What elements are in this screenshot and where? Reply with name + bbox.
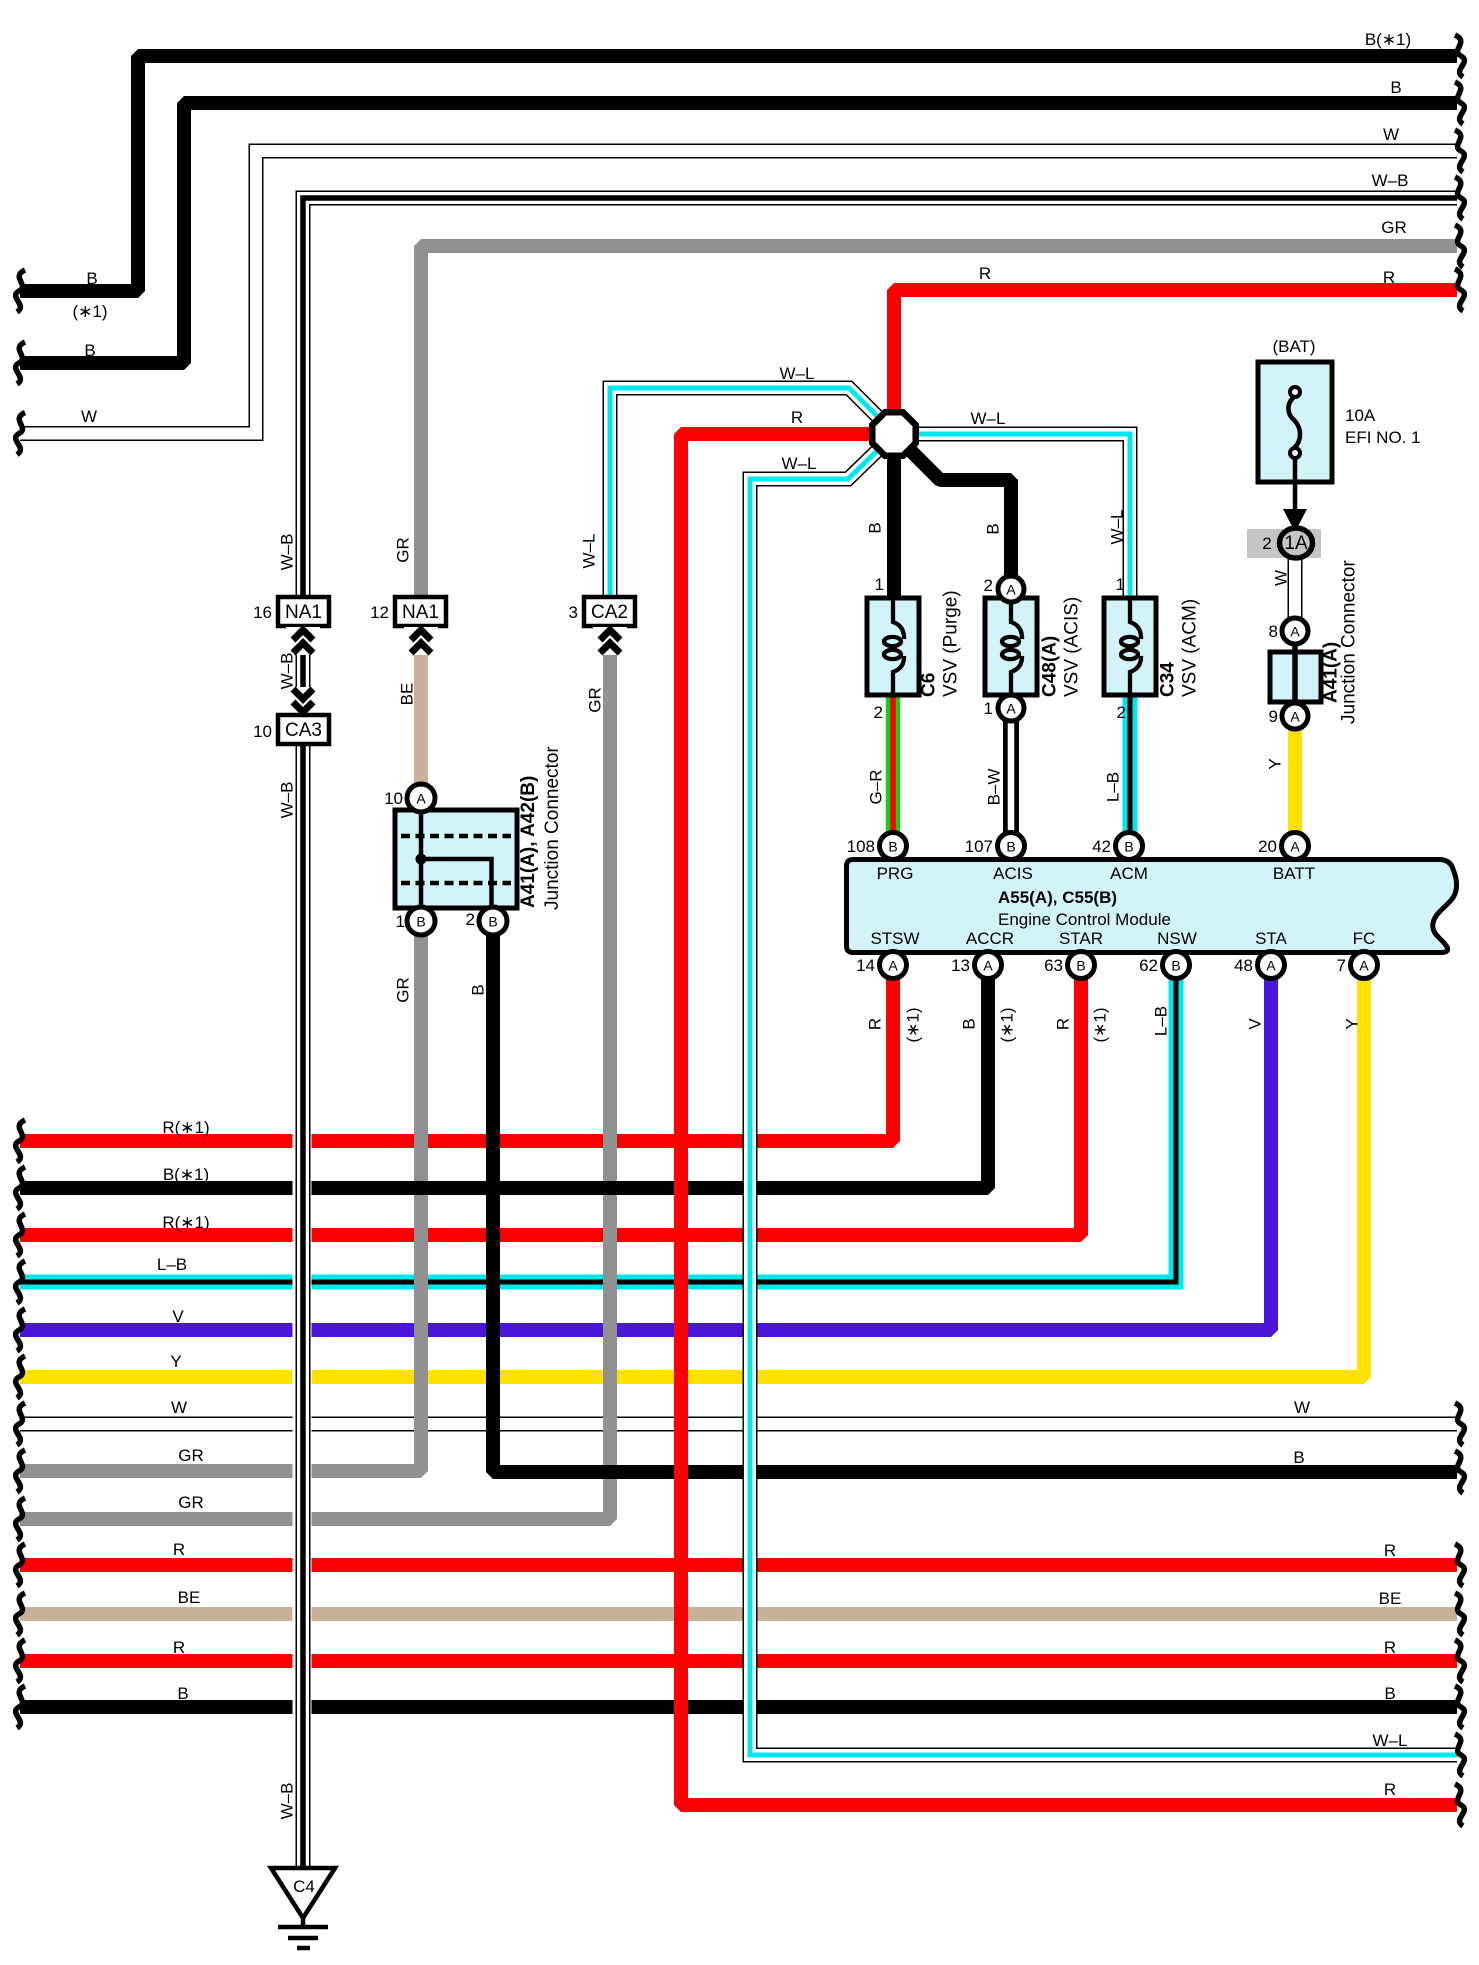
svg-text:48: 48 [1234,956,1253,975]
svg-text:R: R [979,264,991,283]
svg-text:(∗1): (∗1) [72,302,107,321]
wire B top [20,103,1457,363]
wire end squiggles left [16,270,25,1728]
svg-text:10: 10 [253,722,272,741]
svg-text:R: R [1384,1541,1396,1560]
ECM pin 14 A [880,952,907,979]
svg-text:STAR: STAR [1059,929,1103,948]
wire R from node left, down and to bottom right edge [681,434,1457,1805]
svg-text:W–L: W–L [1373,1731,1408,1750]
svg-text:GR: GR [178,1446,204,1465]
ECM pin 13 A [975,952,1002,979]
ECM pin 42 B [1116,833,1143,860]
wire R top to node [894,290,1457,412]
svg-text:W–B: W–B [278,653,297,690]
svg-text:R: R [1384,1780,1396,1799]
wire W-L lower loop from node to bottom right edge [750,448,1457,1755]
svg-text:62: 62 [1139,956,1158,975]
connector NA1 pin 12 box [395,597,446,626]
connector 2 1A ellipse [1280,528,1313,558]
svg-text:C6: C6 [919,673,940,697]
svg-text:STA: STA [1255,929,1287,948]
svg-text:1A: 1A [1284,533,1308,554]
svg-text:A: A [1290,624,1300,640]
ECM pin 20 A [1282,833,1309,860]
svg-text:A: A [983,958,993,974]
wire B(*1) row to ECM pin 13 [20,978,988,1188]
svg-text:GR: GR [178,1493,204,1512]
ECM pin 7 A [1351,952,1378,979]
svg-text:VSV (ACIS): VSV (ACIS) [1062,597,1083,697]
connector NA1 pin 16 box [278,597,329,626]
ECM pin 108 B [880,833,907,860]
svg-text:EFI NO. 1: EFI NO. 1 [1345,428,1421,447]
ground symbol C4 [271,1868,335,1918]
svg-text:W–B: W–B [278,534,297,571]
svg-text:14: 14 [856,956,875,975]
svg-text:R: R [173,1540,185,1559]
wire B(*1) top [20,56,1457,291]
svg-text:L–B: L–B [1152,1006,1171,1036]
svg-text:B: B [984,523,1003,534]
svg-text:A: A [1266,958,1276,974]
wire GR row left to junction connector pin 1 [20,934,421,1471]
svg-text:12: 12 [370,603,389,622]
ECM pin 63 B [1068,952,1095,979]
wire B row right from junction connector pin 2 [493,934,1457,1472]
junction connector pin 8 A [1282,618,1308,644]
svg-text:1: 1 [1116,575,1125,594]
svg-text:B: B [84,341,95,360]
svg-text:C34: C34 [1158,662,1179,697]
svg-text:1: 1 [984,699,993,718]
svg-text:PRG: PRG [877,864,914,883]
svg-text:1: 1 [875,575,884,594]
svg-text:A: A [416,791,426,807]
svg-text:A: A [1006,701,1016,717]
svg-text:W–L: W–L [780,364,815,383]
fuse output arrow [1283,509,1307,532]
svg-text:A55(A), C55(B): A55(A), C55(B) [998,888,1117,907]
VSV C48 pin 2 circle [998,576,1024,602]
svg-text:W–B: W–B [278,782,297,819]
svg-text:B: B [866,522,885,533]
svg-text:GR: GR [586,687,605,713]
svg-text:R: R [1384,1638,1396,1657]
svg-text:A: A [1006,582,1016,598]
junction connector pin 9 A [1282,703,1308,729]
svg-text:Junction Connector: Junction Connector [1339,560,1360,724]
wire Y row to ECM pin 7 [20,978,1364,1377]
wire G-R from VSV C6 to ECM pin 108 [892,692,894,838]
svg-text:ACM: ACM [1110,864,1148,883]
svg-text:A41(A), A42(B): A41(A), A42(B) [518,776,539,908]
svg-text:L–B: L–B [1104,772,1123,802]
wire W-B halo [293,1128,312,1722]
svg-text:GR: GR [394,977,413,1003]
svg-text:L–B: L–B [157,1255,187,1274]
wire V row to ECM pin 48 [20,978,1271,1330]
svg-text:8: 8 [1269,622,1278,641]
wire W-L upper from node to connector CA2 [610,388,880,601]
svg-text:VSV (ACM): VSV (ACM) [1180,599,1201,697]
svg-text:108: 108 [847,837,875,856]
svg-text:R: R [1383,268,1395,287]
ECM A55(A),C55(B) box [847,860,1457,953]
wire BE row [20,1607,1457,1621]
node octagon junction [872,412,915,455]
svg-text:ACCR: ACCR [966,929,1014,948]
wire L-B from VSV C34 to ECM pin 42 [1129,692,1131,838]
svg-text:R: R [866,1018,885,1030]
svg-text:A: A [888,958,898,974]
VSV C48 pin 1 circle [998,695,1024,721]
wire GR top to connector NA1 12 [421,246,1457,601]
wire L-B row to ECM pin 62 [20,978,1176,1282]
svg-text:B: B [177,1684,188,1703]
svg-text:BE: BE [178,1588,201,1607]
svg-text:W–L: W–L [580,534,599,569]
wire W row [20,1423,1457,1425]
svg-text:R: R [1054,1018,1073,1030]
svg-text:C4: C4 [293,1877,315,1896]
wire W top [20,151,1457,434]
wire B from node down to VSV C6 [887,446,901,601]
svg-text:NA1: NA1 [285,602,322,623]
svg-text:(BAT): (BAT) [1272,337,1315,356]
svg-text:CA2: CA2 [591,602,628,623]
svg-text:B: B [1293,1448,1304,1467]
svg-text:Y: Y [170,1352,181,1371]
wire Y from junction connector pin 9 to ECM pin 20 [1288,728,1302,838]
connector arrows below NA1 12 [404,627,438,655]
svg-text:2: 2 [1262,534,1271,553]
svg-text:W–L: W–L [971,409,1006,428]
junction connector A41(A),A42(B) box [395,810,517,908]
svg-text:9: 9 [1269,707,1278,726]
svg-text:B: B [1006,839,1015,855]
wire BE from connector NA1 12 to junction connector pin 10 [414,640,428,786]
svg-text:B(∗1): B(∗1) [163,1165,209,1184]
svg-text:R: R [791,408,803,427]
connector arrows below CA2 [593,627,627,655]
svg-text:W: W [1272,570,1291,586]
svg-text:(∗1): (∗1) [1091,1007,1110,1042]
VSV C6 box [867,598,919,695]
svg-text:R: R [173,1638,185,1657]
svg-text:CA3: CA3 [285,720,322,741]
VSV C34 box [1104,598,1156,695]
svg-text:(∗1): (∗1) [998,1007,1017,1042]
wire R(*1) row to ECM pin 14 [20,978,893,1141]
svg-text:R(∗1): R(∗1) [162,1213,209,1232]
svg-text:FC: FC [1353,929,1376,948]
wire R row lower [20,1654,1457,1668]
junction connector pin 10 A [407,784,435,812]
svg-text:B: B [488,914,497,930]
svg-text:B: B [86,269,97,288]
wire GR row 2 left to connector CA2 [20,628,610,1519]
svg-text:W: W [171,1398,187,1417]
svg-text:GR: GR [394,537,413,563]
svg-text:42: 42 [1092,837,1111,856]
svg-text:B–W: B–W [985,769,1004,806]
ECM pin 48 A [1258,952,1285,979]
connector CA3 pin 10 box [278,715,329,744]
svg-text:13: 13 [951,956,970,975]
junction connector pin 1 B [407,907,435,935]
wire R row [20,1558,1457,1572]
wire B-W from VSV C48 to ECM pin 107 [1010,718,1012,838]
svg-text:STSW: STSW [870,929,919,948]
VSV C48 box [985,598,1037,695]
svg-text:NA1: NA1 [402,602,439,623]
svg-text:W–B: W–B [278,1783,297,1820]
svg-text:B(∗1): B(∗1) [1365,30,1411,49]
svg-text:BATT: BATT [1273,864,1315,883]
svg-text:1: 1 [396,912,405,931]
svg-text:C48(A): C48(A) [1040,636,1061,697]
svg-text:GR: GR [1381,218,1407,237]
svg-text:NSW: NSW [1157,929,1197,948]
svg-text:BE: BE [1379,1589,1402,1608]
svg-text:B: B [1171,958,1180,974]
svg-text:20: 20 [1258,837,1277,856]
svg-text:B: B [1076,958,1085,974]
svg-text:Y: Y [1266,758,1285,769]
svg-text:BE: BE [398,683,417,706]
connector arrows below NA1 16 [286,627,320,655]
svg-text:10A: 10A [1345,406,1376,425]
wire end squiggles right [1455,35,1464,1826]
svg-text:B: B [469,984,488,995]
svg-text:B: B [1124,839,1133,855]
svg-text:W–L: W–L [782,454,817,473]
svg-text:16: 16 [253,603,272,622]
svg-text:10: 10 [384,789,403,808]
wire B through junction connector A41(A) [1292,640,1298,706]
wire W-L right from node to VSV C34 [905,434,1130,601]
wire R(*1) row to ECM pin 63 [20,978,1081,1235]
svg-text:B: B [1390,78,1401,97]
svg-text:7: 7 [1337,956,1346,975]
ECM pin 62 B [1163,952,1190,979]
connector 1A band [1247,529,1321,558]
svg-text:VSV (Purge): VSV (Purge) [941,590,962,697]
svg-text:Junction Connector: Junction Connector [542,746,563,910]
wire B row lower [20,1700,1457,1714]
ECM pin 107 B [998,833,1025,860]
svg-text:W–B: W–B [1372,171,1409,190]
svg-text:A: A [1359,958,1369,974]
svg-text:2: 2 [466,910,475,929]
fuse 10A EFI NO.1 box [1258,362,1332,482]
svg-text:W: W [1383,125,1399,144]
svg-text:3: 3 [569,603,578,622]
connector CA2 pin 3 box [584,597,635,626]
svg-text:ACIS: ACIS [993,864,1033,883]
wire W from connector 1A to junction pin 8 [1294,555,1296,621]
wire W-B top and vertical to ground [303,198,1457,1868]
svg-text:107: 107 [965,837,993,856]
svg-text:W–L: W–L [1108,510,1127,545]
svg-text:V: V [172,1307,184,1326]
svg-text:(∗1): (∗1) [904,1007,923,1042]
svg-text:2: 2 [874,703,883,722]
svg-text:V: V [1246,1018,1265,1030]
svg-text:Y: Y [1343,1018,1362,1029]
svg-text:Engine Control Module: Engine Control Module [998,910,1171,929]
connector arrows above CA3 [286,687,320,715]
svg-text:W: W [81,407,97,426]
svg-text:A: A [1290,839,1300,855]
svg-text:2: 2 [1117,703,1126,722]
svg-text:A: A [1290,709,1300,725]
svg-text:B: B [888,839,897,855]
svg-text:2: 2 [984,576,993,595]
svg-text:R(∗1): R(∗1) [162,1118,209,1137]
svg-text:B: B [960,1018,979,1029]
junction connector pin 2 B [479,907,507,935]
svg-text:W: W [1294,1398,1310,1417]
svg-text:63: 63 [1044,956,1063,975]
svg-text:B: B [416,914,425,930]
junction connector A41(A) right box [1270,652,1321,702]
svg-text:B: B [1384,1684,1395,1703]
wire B from node diagonal to VSV C48 pin 2 [902,442,1011,577]
svg-text:G–R: G–R [867,770,886,805]
